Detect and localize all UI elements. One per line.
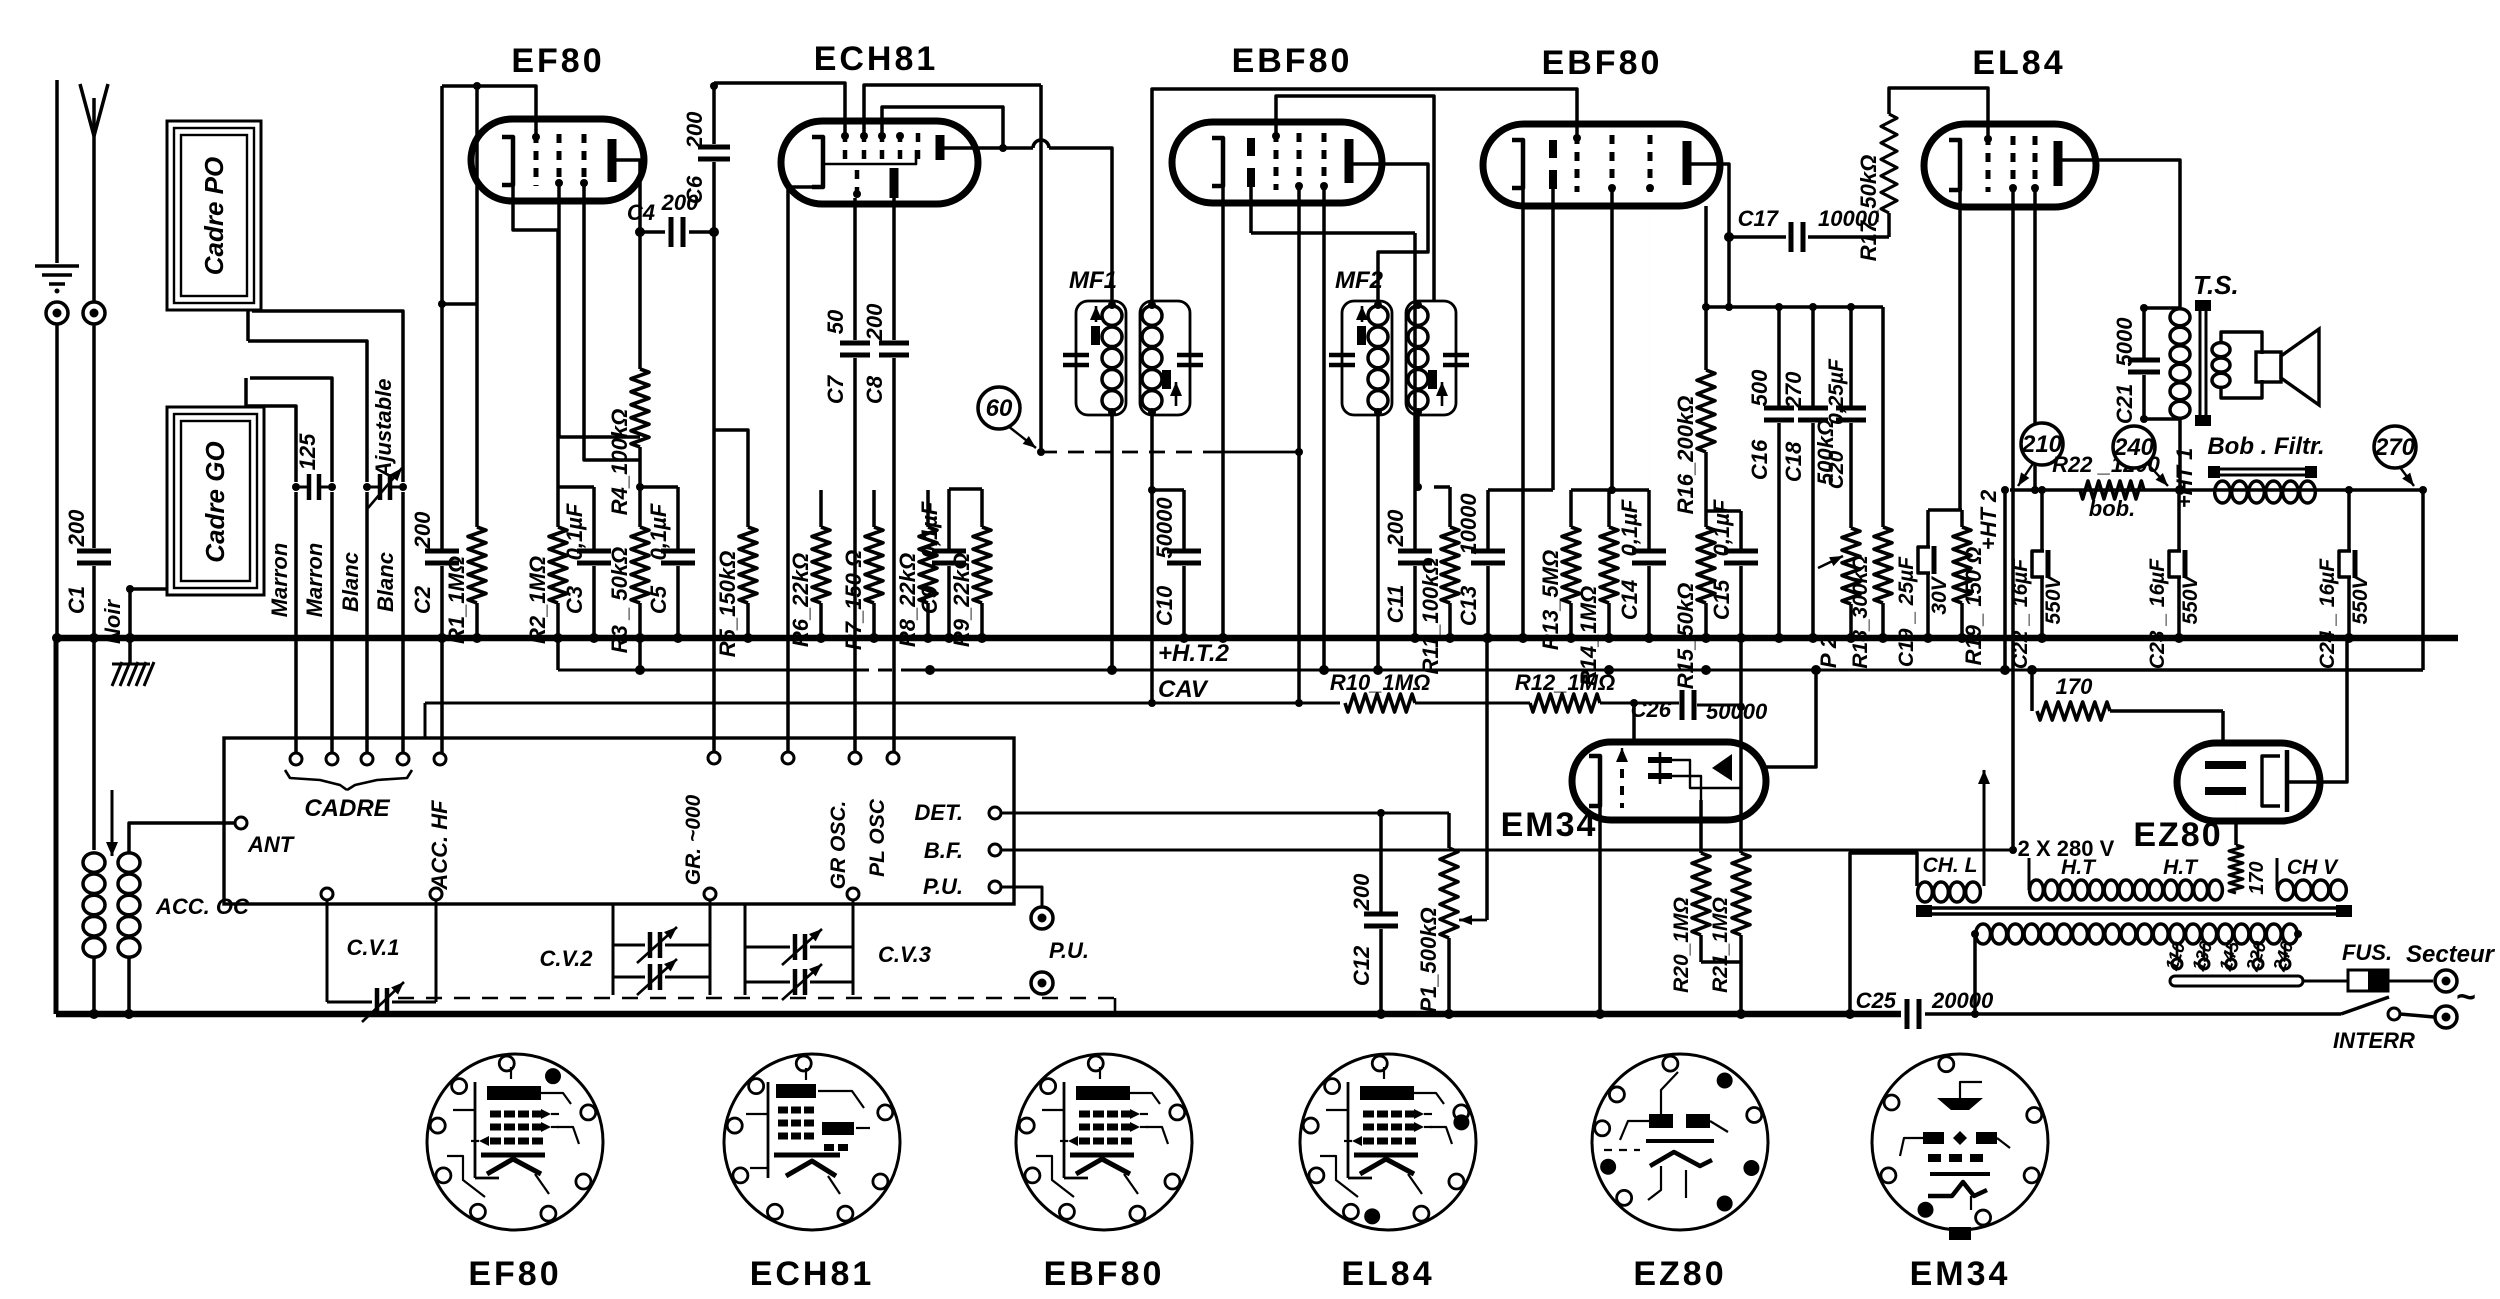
wire diode lead <box>1249 187 1253 233</box>
wire cathode to box <box>788 187 823 753</box>
wire bottom bus right <box>1925 1012 2341 1016</box>
svg-text:C.V.3: C.V.3 <box>878 942 931 967</box>
wire g2 to screen node <box>559 186 640 437</box>
capacitor C19 electrolytic <box>1926 510 1930 547</box>
cathode EBF80b <box>1512 140 1523 188</box>
grid g1 EL84 <box>1986 136 1991 192</box>
svg-text:0,1µF: 0,1µF <box>646 503 671 560</box>
svg-text:Noir: Noir <box>100 599 125 644</box>
wire antenna below <box>92 638 96 850</box>
loop antenna Cadre PO <box>167 121 261 310</box>
svg-text:550V: 550V <box>2042 573 2065 624</box>
svg-text:Blanc: Blanc <box>338 552 363 612</box>
resistor R2 1M <box>556 230 560 527</box>
triode grid <box>855 170 860 198</box>
node ANT <box>235 817 247 829</box>
wire ECH81 top g2 rail <box>864 85 1041 133</box>
pinout EM34 internals <box>1937 1098 1983 1110</box>
grid g1 EBF80b <box>1575 135 1580 192</box>
svg-text:R1_1MΩ: R1_1MΩ <box>444 556 469 644</box>
wire cadre PO leads <box>252 311 403 482</box>
chassis ground <box>128 638 132 664</box>
svg-text:EBF80: EBF80 <box>1044 1255 1165 1293</box>
svg-text:C4: C4 <box>627 200 655 225</box>
wire fuse to secteur <box>2388 980 2433 983</box>
svg-text:P.U.: P.U. <box>1049 938 1089 963</box>
capacitor C10 <box>1182 490 1186 551</box>
ground jack <box>46 302 68 324</box>
capacitor C13 <box>1488 488 1553 492</box>
svg-text:270: 270 <box>1781 371 1806 409</box>
svg-text:R16_200kΩ: R16_200kΩ <box>1673 396 1698 515</box>
resistor R11 100k <box>1434 485 1450 489</box>
svg-text:R2_1MΩ: R2_1MΩ <box>525 556 550 644</box>
svg-text:Bob . Filtr.: Bob . Filtr. <box>2207 433 2324 460</box>
svg-text:P.U.: P.U. <box>923 874 963 899</box>
cathode EL84 <box>1949 140 1960 190</box>
wire EM34 grid to CAV <box>1632 703 1636 742</box>
svg-text:R19_ 150 Ω: R19_ 150 Ω <box>1961 547 1986 666</box>
wire bottom bus <box>56 1011 1901 1018</box>
pinout EZ80 internals <box>1649 1114 1673 1128</box>
svg-text:EZ80: EZ80 <box>1633 1255 1726 1293</box>
svg-text:170: 170 <box>2056 674 2093 699</box>
svg-text:EF80: EF80 <box>511 42 604 80</box>
transformer MF1 secondary <box>1140 301 1190 415</box>
wire anode EBF80b <box>1720 164 1729 307</box>
wire HT rail <box>2010 488 2423 492</box>
wire selector to fuse <box>2303 980 2348 983</box>
anode EL84 <box>2054 141 2063 186</box>
transformer CH V winding <box>2278 880 2294 900</box>
capacitor C4 <box>640 230 665 234</box>
wire ECH81 top g4 rail <box>882 107 1003 148</box>
svg-text:CH V: CH V <box>2287 856 2339 879</box>
svg-text:ACC. OC: ACC. OC <box>155 894 250 919</box>
wire MF1 sec bottom <box>1152 415 1184 490</box>
wire ECH81 anode to MF1 <box>978 146 1033 150</box>
target EM34 <box>1712 754 1732 781</box>
pinout EF80 internals <box>474 1082 477 1178</box>
brace cadre <box>285 770 347 790</box>
svg-text:C19 _ 25µF: C19 _ 25µF <box>1895 556 1918 667</box>
svg-text:ANT: ANT <box>247 832 295 857</box>
svg-text:550V: 550V <box>2349 573 2372 624</box>
svg-text:FUS.: FUS. <box>2342 940 2392 965</box>
wire EF80 cathode down <box>513 185 558 230</box>
tube EBF80 first <box>1172 122 1382 203</box>
wire BF line <box>1002 849 2013 852</box>
variable capacitor CV3 <box>847 888 859 900</box>
capacitor C17 <box>1729 235 1786 239</box>
deflectors EM34 <box>1648 757 1672 763</box>
svg-text:MF1: MF1 <box>1069 267 1117 294</box>
potentiometer P2 500k <box>1849 423 1853 528</box>
svg-text:R13_5MΩ: R13_5MΩ <box>1538 550 1563 650</box>
bracket R13 R14 <box>1571 488 1649 492</box>
resistor R19 150 <box>1960 510 1964 527</box>
wire GR000 drop <box>712 232 716 753</box>
ground line <box>55 80 59 263</box>
wire gang dashed <box>398 997 1115 1000</box>
cathode EM34 <box>1589 756 1600 806</box>
svg-text:C16: C16 <box>1747 439 1772 480</box>
resistor R5 150k <box>714 430 748 527</box>
svg-text:240: 240 <box>2113 434 2155 461</box>
svg-text:EM34: EM34 <box>1501 806 1598 844</box>
svg-text:200: 200 <box>862 303 887 341</box>
wire left edge <box>54 638 59 1014</box>
svg-text:ACC. HF: ACC. HF <box>427 800 452 891</box>
capacitor C14 <box>1647 490 1651 551</box>
wire MF2 primary to HT2 <box>1376 415 1380 670</box>
resistor R7 150 <box>872 490 876 527</box>
wire C26 deflector link <box>1739 638 1743 853</box>
svg-text:200: 200 <box>1383 509 1408 547</box>
svg-text:P1_500kΩ: P1_500kΩ <box>1416 907 1441 1012</box>
resistor R20 1M <box>1699 800 1703 853</box>
svg-text:50000: 50000 <box>1152 497 1177 559</box>
transformer primary CH L <box>1918 882 1933 902</box>
svg-text:B.F.: B.F. <box>924 838 963 863</box>
svg-text:ECH81: ECH81 <box>814 40 939 78</box>
tube base diagram EF80 <box>427 1054 603 1230</box>
svg-text:Cadre PO: Cadre PO <box>199 157 229 276</box>
svg-text:C2: C2 <box>410 585 435 614</box>
wire cadre GO leads <box>250 378 332 482</box>
voltage selector bar <box>2170 976 2303 986</box>
svg-text:GR. ~000: GR. ~000 <box>682 794 705 885</box>
tube base diagram ECH81 <box>724 1054 900 1230</box>
tube base diagram EM34 <box>1872 1054 2048 1230</box>
wire g2 EL84 down <box>2033 192 2037 490</box>
svg-text:Marron: Marron <box>302 543 327 618</box>
pinout EL84 internals <box>1347 1082 1350 1178</box>
wire DET line <box>1002 812 1449 815</box>
svg-text:C17: C17 <box>1738 206 1780 231</box>
svg-text:EF80: EF80 <box>468 1255 561 1293</box>
resistor R21 1M <box>1732 853 1750 935</box>
svg-text:R7_150 Ω: R7_150 Ω <box>841 550 866 650</box>
tuner block box <box>224 738 1014 904</box>
svg-text:200: 200 <box>682 111 707 149</box>
svg-text:PL OSC: PL OSC <box>866 798 889 877</box>
wire MF2 sec down <box>1415 415 1418 487</box>
tube EBF80 second <box>1483 124 1720 206</box>
bracket C19 R19 <box>1928 508 1962 512</box>
node GR ~000 <box>708 752 720 764</box>
capacitor C25 <box>1905 999 1910 1029</box>
wire g3 down <box>584 186 640 460</box>
tube base diagram EBF80 <box>1016 1054 1192 1230</box>
wire AGC drop <box>1039 85 1043 452</box>
heptode grids <box>843 133 848 160</box>
capacitor C26 <box>1680 690 1685 720</box>
svg-text:C5: C5 <box>646 585 671 614</box>
node BF <box>989 844 1001 856</box>
svg-text:EL84: EL84 <box>1341 1255 1434 1293</box>
capacitor C21 <box>2142 308 2146 358</box>
wire +HT2 rail <box>558 669 855 672</box>
anode plates EZ80 <box>2205 761 2246 769</box>
core arrow <box>111 790 114 856</box>
grid g2 EBF80b <box>1610 135 1615 192</box>
transformer ACC.OC primary <box>83 853 105 873</box>
anode EBF80a <box>1345 139 1354 183</box>
svg-text:R11_100kΩ: R11_100kΩ <box>1418 557 1443 674</box>
svg-text:EBF80: EBF80 <box>1232 42 1353 80</box>
svg-text:0,1µF: 0,1µF <box>562 503 587 560</box>
svg-text:20000: 20000 <box>1931 988 1994 1013</box>
svg-text:C.V.1: C.V.1 <box>346 935 399 960</box>
node ACC HF <box>434 753 446 765</box>
wire g3 down EBF80a <box>1322 190 1326 670</box>
svg-text:MF2: MF2 <box>1335 267 1384 294</box>
svg-text:C7: C7 <box>823 374 848 404</box>
svg-text:170: 170 <box>2246 861 2268 894</box>
wire EM34 cathode down <box>1598 806 1602 1014</box>
jack PU bottom <box>1031 972 1053 994</box>
wire EZ80 heater 170 <box>2235 791 2237 845</box>
svg-text:+HT 2: +HT 2 <box>1976 489 2001 550</box>
transformer TS secondary <box>2212 343 2230 357</box>
svg-text:200: 200 <box>1349 873 1374 911</box>
svg-text:EZ80: EZ80 <box>2133 816 2222 854</box>
resistor R1 1M <box>475 86 479 527</box>
resistor R16 200k <box>1704 206 1708 307</box>
svg-text:INTERR: INTERR <box>2333 1028 2415 1053</box>
svg-text:GR OSC.: GR OSC. <box>827 801 850 890</box>
wire CH L arrow <box>1983 770 1986 886</box>
diode anodes EBF80b <box>1549 140 1557 158</box>
svg-text:2 X 280 V: 2 X 280 V <box>2018 836 2115 861</box>
wire Noir <box>130 589 168 638</box>
svg-text:200: 200 <box>410 511 435 549</box>
capacitor C6 <box>698 145 730 150</box>
svg-text:CADRE: CADRE <box>304 795 390 822</box>
svg-text:C22 _ 16µF: C22 _ 16µF <box>2009 558 2032 669</box>
transformer MF2 primary <box>1342 301 1392 415</box>
svg-text:EM34: EM34 <box>1910 1255 2011 1293</box>
svg-text:C11: C11 <box>1383 585 1408 624</box>
grid EM34 <box>1620 752 1624 808</box>
svg-text:C18: C18 <box>1781 441 1806 482</box>
resistor R10 1M <box>1345 694 1415 712</box>
node PU <box>989 881 1001 893</box>
node DET <box>989 807 1001 819</box>
svg-text:0,1µF: 0,1µF <box>1617 499 1642 556</box>
node 60 <box>978 387 1020 429</box>
svg-text:CAV: CAV <box>1158 676 1209 703</box>
capacitor C1 <box>77 549 111 554</box>
wire g1 EL84 to BF <box>2011 192 2015 850</box>
wire triode grid down <box>853 198 857 340</box>
antenna jack <box>83 302 105 324</box>
anode EBF80b <box>1683 141 1692 185</box>
grid g1 EBF80a <box>1274 133 1279 190</box>
wire diode EBF80b down <box>1551 189 1555 490</box>
svg-text:R9_22kΩ: R9_22kΩ <box>949 553 974 647</box>
svg-text:EBF80: EBF80 <box>1542 44 1663 82</box>
svg-text:R6_22kΩ: R6_22kΩ <box>788 553 813 647</box>
wire MF1 primary to HT2 <box>1110 415 1114 670</box>
svg-text:C13: C13 <box>1456 586 1481 626</box>
svg-text:R14_1MΩ: R14_1MΩ <box>1576 586 1601 686</box>
tube ECH81 <box>781 121 978 204</box>
grid g2 EF80 <box>557 134 562 186</box>
svg-text:5000: 5000 <box>2112 317 2137 367</box>
svg-text:C12: C12 <box>1349 945 1374 986</box>
svg-text:Marron: Marron <box>267 543 292 618</box>
wire EF80 anode down <box>638 161 642 232</box>
capacitor C24 <box>2347 490 2351 551</box>
anode EF80 <box>608 139 617 182</box>
svg-text:C10: C10 <box>1152 585 1177 626</box>
svg-text:50000: 50000 <box>1706 699 1768 724</box>
wire EZ80 cathode up <box>2287 640 2347 782</box>
capacitor C16 <box>1777 307 1781 406</box>
wire +HT2 corner <box>556 638 560 670</box>
choke Bob Filtr <box>2212 468 2313 471</box>
wire anode EBF80a to MF2 <box>1378 164 1428 301</box>
wire main ground bus <box>56 635 2458 642</box>
switch INTERR <box>2388 1008 2400 1020</box>
potentiometer P1 500k <box>1447 813 1451 848</box>
resistor 170 <box>2037 702 2110 720</box>
svg-text:H.T: H.T <box>2163 856 2199 879</box>
transformer MF2 secondary <box>1406 301 1456 415</box>
transformer mains primary <box>1976 924 1991 944</box>
mains taps <box>2176 944 2179 959</box>
resistor R17 50k <box>1889 88 1988 136</box>
svg-text:Blanc: Blanc <box>373 552 398 612</box>
svg-text:CH. L: CH. L <box>1923 854 1978 877</box>
svg-text:R20_1MΩ: R20_1MΩ <box>1670 897 1693 993</box>
svg-text:ECH81: ECH81 <box>750 1255 875 1293</box>
wire heater from bus <box>1850 853 1917 1014</box>
node cathode terminal <box>782 752 794 764</box>
svg-text:60: 60 <box>986 395 1013 422</box>
wire P1 wiper <box>1485 638 1489 920</box>
capacitor C9 <box>947 489 951 551</box>
resistor R9 22k <box>949 487 982 491</box>
wire bracket C5 <box>640 485 678 489</box>
svg-text:EL84: EL84 <box>1972 44 2065 82</box>
variable capacitor CV2 <box>704 888 716 900</box>
svg-text:10000: 10000 <box>1456 493 1481 555</box>
pinout EBF80 internals <box>1063 1082 1066 1178</box>
svg-text:R3 _ 50kΩ: R3 _ 50kΩ <box>607 547 632 653</box>
svg-text:C14: C14 <box>1617 580 1642 620</box>
capacitor C20 <box>1849 307 1853 406</box>
diode anodes EBF80a <box>1247 138 1255 156</box>
wire AGC dashed <box>1041 451 1218 454</box>
wire cathode EL84 down <box>1958 190 1962 510</box>
wire ECH81 top g1 <box>714 83 845 133</box>
bracket R15 C15 <box>1706 509 1741 513</box>
capacitor C23 <box>2177 490 2181 551</box>
speaker <box>2221 332 2262 354</box>
resistor R12 1M <box>1530 694 1600 712</box>
svg-text:270: 270 <box>2374 434 2416 461</box>
svg-text:0,1µF: 0,1µF <box>1709 499 1734 556</box>
resistor R4 100k <box>638 232 642 369</box>
grid g3 EBF80a <box>1322 133 1327 190</box>
wire HT2 riser <box>2003 490 2007 670</box>
node 210 <box>2021 423 2063 465</box>
wire ground down <box>55 324 59 638</box>
capacitor C3 <box>592 487 596 551</box>
cathode EBF80a <box>1212 138 1223 186</box>
capacitor C22 <box>2040 490 2044 551</box>
svg-text:P 2: P 2 <box>1816 635 1841 668</box>
svg-text:C6: C6 <box>682 175 707 204</box>
fuse FUS <box>2348 970 2388 991</box>
transformer ACC.OC secondary <box>118 853 140 873</box>
resistor R18 300k <box>1881 307 1885 527</box>
resistor 170 vertical <box>2234 821 2238 845</box>
resistor R15 50k <box>1704 511 1708 527</box>
wire triode anode down <box>892 198 896 340</box>
node 270 <box>2374 426 2416 468</box>
capacitor C5 <box>676 487 680 551</box>
wire g1 EBF80b down <box>1610 192 1614 490</box>
wire cathode down EBF80a <box>1221 186 1225 638</box>
tube base diagram EZ80 <box>1592 1054 1768 1230</box>
svg-text:bob.: bob. <box>2089 496 2135 521</box>
wire CAV rail <box>425 702 1340 705</box>
resistor R8 22k <box>926 490 930 527</box>
svg-text:+HT 1: +HT 1 <box>2172 448 2197 509</box>
resistor R3 50k <box>638 487 642 527</box>
jack secteur bottom <box>2435 1006 2457 1028</box>
triode anode <box>890 168 899 198</box>
capacitor C7 <box>840 341 870 346</box>
transformer HT winding <box>2030 880 2044 900</box>
tube EF80 <box>471 119 644 201</box>
jack PU top <box>1031 907 1053 929</box>
wire R20 R21 join <box>1699 935 1703 962</box>
wire grid top EBF80a <box>1276 96 1434 301</box>
svg-text:~: ~ <box>2456 978 2476 1016</box>
capacitor C2 <box>425 549 459 554</box>
grid g3 EBF80b <box>1648 135 1653 192</box>
svg-text:Cadre GO: Cadre GO <box>200 441 230 562</box>
wire EM34 plate right <box>1766 670 1816 767</box>
wire screen rail <box>1706 305 1883 309</box>
svg-text:R5_150kΩ: R5_150kΩ <box>715 551 740 657</box>
wire right drop <box>2421 490 2425 670</box>
svg-text:C15: C15 <box>1709 579 1734 620</box>
svg-text:0,25µF: 0,25µF <box>1825 358 1848 425</box>
wire HT2 extension <box>2032 668 2423 672</box>
grid g3 EL84 <box>2033 136 2038 192</box>
svg-text:C23 _ 16µF: C23 _ 16µF <box>2146 558 2169 669</box>
svg-text:R15_50kΩ: R15_50kΩ <box>1673 583 1698 689</box>
wire C2 drop <box>440 86 444 551</box>
pinout ECH81 internals <box>767 1082 770 1178</box>
node PL OSC <box>887 752 899 764</box>
capacitor Ajustable trimmer <box>378 474 383 500</box>
antenna <box>80 84 108 136</box>
svg-text:500kΩ: 500kΩ <box>1813 419 1838 485</box>
wire mains left <box>1973 934 1977 1014</box>
capacitor C8 <box>879 341 909 346</box>
svg-text:R17_50kΩ: R17_50kΩ <box>1856 155 1881 261</box>
svg-text:500: 500 <box>1747 369 1772 406</box>
svg-text:Ajustable: Ajustable <box>371 378 396 478</box>
transformer TS primary <box>2170 309 2190 326</box>
